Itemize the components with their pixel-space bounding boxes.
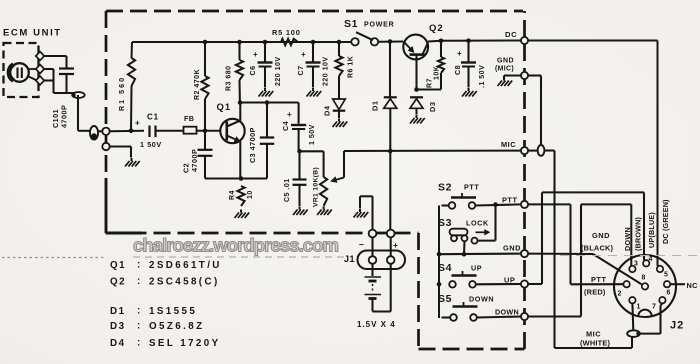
svg-text:SEL 1720Y: SEL 1720Y: [149, 338, 221, 349]
svg-text:4700P: 4700P: [60, 105, 69, 128]
svg-text:J1: J1: [344, 254, 355, 264]
svg-text:R5 100: R5 100: [272, 28, 301, 37]
svg-text:1.5V X 4: 1.5V X 4: [357, 320, 396, 329]
svg-text:PTT: PTT: [464, 183, 479, 192]
svg-text:DOWN: DOWN: [623, 227, 632, 251]
svg-text:R7: R7: [426, 78, 433, 88]
svg-text:(MIC): (MIC): [495, 66, 514, 73]
svg-text:UP: UP: [471, 264, 482, 273]
svg-text:10K: 10K: [433, 66, 440, 80]
svg-text:R4: R4: [229, 190, 236, 200]
svg-text:C7: C7: [296, 65, 305, 75]
svg-text:+: +: [287, 110, 292, 119]
svg-text:O5Z6.8Z: O5Z6.8Z: [149, 321, 204, 332]
svg-text:NC: NC: [687, 281, 699, 290]
svg-text:4: 4: [649, 256, 653, 263]
svg-text:LOCK: LOCK: [466, 219, 489, 228]
svg-text:R6 1K: R6 1K: [348, 56, 355, 78]
svg-text:C8: C8: [453, 65, 462, 75]
svg-text:DOWN: DOWN: [495, 308, 519, 317]
svg-text:Q1: Q1: [217, 102, 232, 113]
svg-text:PTT: PTT: [591, 275, 606, 284]
svg-text:D4: D4: [323, 105, 332, 116]
svg-text:D4: D4: [110, 338, 126, 349]
svg-text:Q2: Q2: [110, 277, 126, 288]
svg-text:(BLACK): (BLACK): [581, 244, 614, 253]
svg-text:VR1 10K(B): VR1 10K(B): [312, 167, 319, 207]
svg-text:2SC458(C): 2SC458(C): [149, 277, 220, 288]
svg-text:2: 2: [618, 291, 622, 298]
svg-text:GND: GND: [592, 231, 610, 240]
svg-text:C1: C1: [147, 113, 159, 122]
svg-text:C6: C6: [248, 65, 257, 75]
svg-text:C4: C4: [281, 121, 290, 131]
svg-text::: :: [137, 306, 140, 317]
svg-text:S2: S2: [438, 182, 452, 194]
svg-text:7: 7: [652, 304, 656, 311]
svg-text:1S1555: 1S1555: [149, 306, 197, 317]
svg-text:10: 10: [247, 190, 254, 199]
svg-text:Q2: Q2: [429, 23, 444, 34]
svg-text:1 50V: 1 50V: [140, 140, 162, 149]
svg-text:ECM UNIT: ECM UNIT: [3, 28, 62, 39]
svg-text:POWER: POWER: [364, 22, 394, 29]
svg-text:C3 4700P: C3 4700P: [248, 127, 257, 163]
svg-text:−: −: [359, 240, 364, 250]
svg-text:(RED): (RED): [584, 288, 606, 297]
svg-text:220 10V: 220 10V: [323, 56, 330, 86]
svg-text::: :: [137, 338, 140, 349]
svg-text:D3: D3: [428, 102, 437, 112]
svg-text:C5 .01: C5 .01: [284, 178, 291, 202]
svg-text:1: 1: [637, 304, 641, 311]
svg-text:D1: D1: [110, 306, 126, 317]
svg-text:DOWN: DOWN: [469, 295, 494, 304]
svg-text:S3: S3: [438, 217, 452, 229]
svg-text:Q1: Q1: [110, 260, 126, 271]
svg-text:GND: GND: [497, 58, 514, 65]
svg-text:+: +: [135, 119, 140, 128]
svg-text:+: +: [301, 50, 306, 59]
svg-text:4700P: 4700P: [190, 149, 199, 172]
svg-text:S1: S1: [344, 18, 358, 30]
svg-text:2SD661T/U: 2SD661T/U: [149, 260, 222, 271]
svg-text:1 50V: 1 50V: [309, 124, 316, 145]
svg-text:J2: J2: [670, 320, 684, 332]
svg-text:D3: D3: [110, 321, 126, 332]
svg-text:MIC: MIC: [501, 140, 516, 149]
svg-text::: :: [137, 260, 140, 271]
svg-text:MIC: MIC: [586, 330, 601, 339]
svg-text:S4: S4: [438, 262, 452, 274]
svg-text:5: 5: [664, 272, 668, 279]
svg-text:+: +: [457, 49, 462, 58]
svg-text:6: 6: [667, 290, 671, 297]
svg-text:DC: DC: [505, 30, 517, 39]
svg-text:UP(BLUE): UP(BLUE): [647, 212, 656, 248]
svg-text:R2 470K: R2 470K: [194, 69, 201, 100]
svg-text:+: +: [393, 240, 398, 250]
svg-text:S5: S5: [438, 293, 452, 305]
svg-text:(BROWN): (BROWN): [634, 216, 643, 251]
svg-text::: :: [137, 276, 140, 287]
svg-text:PTT: PTT: [502, 196, 517, 205]
svg-text:R1 560: R1 560: [117, 76, 126, 111]
svg-text::: :: [137, 321, 140, 332]
svg-text:220 10V: 220 10V: [275, 56, 282, 86]
svg-text:3: 3: [634, 260, 638, 267]
svg-text:GND: GND: [503, 244, 521, 253]
svg-text:+: +: [253, 50, 258, 59]
svg-text:chalroezz.wordpress.com: chalroezz.wordpress.com: [133, 235, 339, 256]
svg-text:.1 50V: .1 50V: [479, 65, 486, 88]
svg-text:(WHITE): (WHITE): [580, 339, 610, 348]
svg-text:8: 8: [642, 275, 646, 282]
svg-text:R3 680: R3 680: [226, 65, 233, 91]
svg-text:DC (GREEN): DC (GREEN): [661, 199, 670, 244]
svg-text:D1: D1: [371, 101, 380, 111]
svg-text:FB: FB: [184, 114, 194, 123]
